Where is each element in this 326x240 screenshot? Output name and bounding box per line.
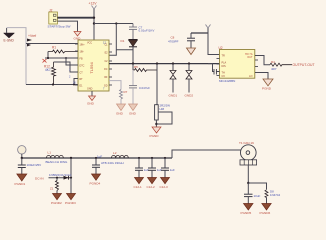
svg-text:FB: FB — [80, 57, 83, 60]
IC2 pin stubs — [217, 59, 259, 76]
svg-text:BEAD-CH RING: BEAD-CH RING — [46, 160, 69, 164]
junction after L1 — [70, 157, 72, 159]
wire stair to pin5 — [54, 62, 79, 72]
svg-text:PGND: PGND — [262, 86, 272, 90]
capacitor C14 — [90, 155, 103, 186]
svg-text:1IN-: 1IN- — [80, 50, 85, 53]
bottom bus wire — [22, 157, 172, 159]
svg-text:CT: CT — [80, 71, 84, 74]
wire top-left corner — [7, 28, 26, 85]
connector J2 — [48, 9, 71, 29]
sense loop wire — [156, 112, 172, 124]
power +12V symbol — [89, 2, 98, 10]
svg-text:0.047uF: 0.047uF — [139, 86, 150, 90]
svg-text:1uF: 1uF — [97, 155, 102, 159]
wire stair to pin4 — [66, 58, 78, 65]
ground under diode node — [65, 178, 76, 205]
svg-text:OUTPUT-OUT: OUTPUT-OUT — [293, 63, 315, 67]
wire riser to fan — [172, 150, 241, 158]
svg-text:START/Stop SW: START/Stop SW — [48, 24, 71, 28]
svg-text:RF: RF — [104, 76, 108, 79]
IC1 pin stubs — [75, 44, 112, 85]
wire port to bus — [21, 154, 23, 158]
svg-text:+Vref: +Vref — [28, 34, 36, 38]
ground arrow J2 — [74, 32, 82, 41]
resistor R4 output — [255, 56, 292, 72]
svg-text:OUT: OUT — [247, 56, 253, 59]
svg-text:PGND3: PGND3 — [65, 201, 76, 205]
svg-text:DC-IN: DC-IN — [35, 176, 44, 180]
wire stair to pin6 — [74, 79, 78, 85]
wire R5 right to sense column — [156, 64, 158, 105]
svg-text:R1: R1 — [52, 46, 56, 50]
svg-text:PGND1: PGND1 — [15, 182, 26, 186]
resistor R1 — [48, 46, 78, 53]
svg-text:C12-2: C12-2 — [147, 185, 156, 189]
svg-text:R7: R7 — [124, 90, 128, 94]
resistor R5 — [133, 64, 157, 72]
svg-text:R5: R5 — [134, 65, 138, 69]
svg-text:GND: GND — [87, 88, 93, 91]
resistor R12 vertical — [44, 62, 56, 85]
zener Z1 column — [50, 178, 62, 205]
svg-text:PGND4: PGND4 — [90, 181, 101, 185]
svg-text:D1: D1 — [121, 39, 125, 43]
svg-text:PGND6: PGND6 — [260, 211, 271, 215]
svg-text:C12-1: C12-1 — [134, 185, 143, 189]
no-connect X marker — [43, 59, 47, 63]
wire R1 left drop — [47, 52, 49, 59]
capacitor C7 — [129, 24, 154, 40]
wire down to DC in node — [70, 158, 72, 178]
sense resistor box R9 — [155, 104, 171, 128]
wire J2 pin1 to +12V rail — [57, 17, 94, 19]
svg-text:1N5822(3A SCH): 1N5822(3A SCH) — [49, 173, 71, 177]
svg-text:DTC: DTC — [80, 64, 85, 67]
svg-text:LO: LO — [249, 75, 252, 78]
svg-text:0.01uF/1KV: 0.01uF/1KV — [139, 29, 155, 33]
svg-text:1N4744: 1N4744 — [270, 193, 281, 197]
wire fan down — [247, 165, 249, 183]
wire pin3 — [45, 57, 78, 59]
svg-text:GD: GD — [104, 84, 108, 87]
svg-text:4K7: 4K7 — [45, 68, 51, 72]
svg-text:GND: GND — [87, 102, 95, 106]
svg-text:PGND5: PGND5 — [241, 211, 252, 215]
svg-text:GND1: GND1 — [169, 94, 178, 98]
TVS diode column 2 — [185, 64, 194, 98]
power symbol VDD — [206, 25, 220, 55]
IC1 bottom pin gnd — [87, 91, 96, 106]
junction — [52, 83, 54, 85]
bus wire IC1 to IC2 — [109, 63, 220, 65]
svg-text:GND: GND — [129, 112, 137, 116]
svg-text:10uF: 10uF — [254, 194, 261, 198]
wire bottom-left to pin7 — [26, 84, 78, 86]
svg-text:HM: HM — [160, 107, 165, 111]
ground under sense resistor — [150, 127, 162, 138]
svg-text:OC: OC — [104, 68, 108, 71]
svg-text:1uF: 1uF — [170, 168, 175, 172]
inductor L1 — [46, 150, 69, 163]
svg-text:ATB 240x 330uH: ATB 240x 330uH — [101, 161, 124, 165]
svg-text:RT: RT — [80, 78, 84, 81]
resistor R7 column from pin — [109, 81, 128, 116]
fan T1 — [239, 141, 257, 165]
wire C8 to VCC riser — [191, 32, 208, 34]
svg-text:E-GND: E-GND — [4, 39, 15, 43]
svg-text:MIC4426BN: MIC4426BN — [219, 79, 235, 83]
wire top feed to C7 — [94, 23, 133, 25]
svg-text:TL594: TL594 — [89, 62, 94, 74]
wire stair right of IC1 — [109, 24, 116, 56]
capacitor C15 — [241, 183, 261, 215]
wire J2 pin2 to gnd — [57, 21, 77, 31]
svg-text:VCC: VCC — [87, 42, 92, 45]
svg-text:C12-3: C12-3 — [160, 185, 169, 189]
capacitor C8 — [168, 33, 196, 55]
wire pin1 — [26, 43, 78, 45]
chassis ground earth symbol — [4, 28, 15, 43]
svg-text:+12V: +12V — [89, 2, 98, 6]
schottky diode D3 — [49, 173, 71, 179]
port label DC-POWER-IN — [35, 176, 71, 180]
svg-text:T1 FAN 16: T1 FAN 16 — [239, 141, 254, 145]
zener D1 — [121, 39, 138, 47]
svg-text:GND: GND — [116, 112, 124, 116]
svg-text:PGND2: PGND2 — [51, 201, 62, 205]
svg-text:Z1: Z1 — [50, 187, 54, 191]
svg-text:TR: TR — [222, 55, 226, 58]
coupling capacitor to U2 — [208, 64, 220, 75]
input port circle — [18, 146, 26, 154]
svg-text:CV: CV — [222, 75, 226, 78]
capacitor C13 input — [15, 158, 42, 186]
wire D1 to bus — [132, 47, 134, 64]
svg-text:DIS: DIS — [222, 65, 227, 68]
node +Vref label — [27, 34, 36, 47]
svg-text:PGND: PGND — [150, 134, 160, 138]
wire +12V rail down to IC1 — [93, 9, 95, 40]
zener D8 — [248, 183, 280, 215]
svg-text:1IN+: 1IN+ — [80, 43, 86, 46]
inductor L2 — [101, 151, 128, 165]
svg-text:100uF/25V: 100uF/25V — [27, 163, 42, 167]
ground U2 right — [255, 73, 273, 91]
driver IC U2 — [219, 46, 255, 83]
TVS diode column 1 — [169, 64, 178, 98]
svg-text:GND2: GND2 — [185, 94, 194, 98]
svg-text:4700PF: 4700PF — [168, 40, 179, 44]
op-amp controller IC U1 TL594 — [78, 40, 109, 91]
svg-text:4R7: 4R7 — [271, 67, 277, 71]
svg-text:L2: L2 — [113, 151, 117, 155]
svg-text:L1: L1 — [48, 150, 52, 154]
filter capacitor bank — [134, 157, 150, 189]
capacitor C9 — [129, 70, 151, 116]
